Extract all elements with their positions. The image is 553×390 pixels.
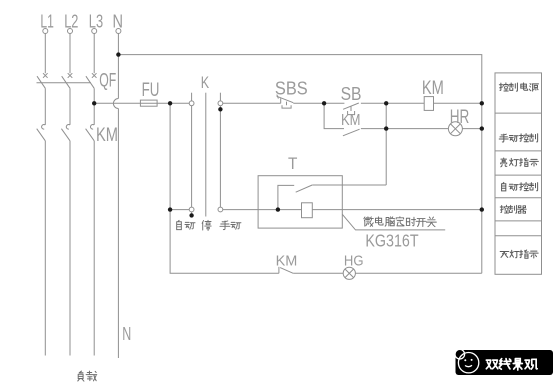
svg-text:KM: KM	[341, 112, 361, 129]
svg-text:HG: HG	[344, 253, 364, 270]
svg-text:SBS: SBS	[275, 78, 308, 99]
svg-text:N: N	[122, 324, 131, 344]
svg-text:KM: KM	[96, 125, 118, 146]
svg-text:KM: KM	[276, 253, 298, 270]
svg-text:KM: KM	[422, 78, 444, 99]
svg-text:N: N	[113, 12, 124, 32]
svg-text:L2: L2	[64, 12, 78, 32]
svg-text:SB: SB	[341, 83, 362, 104]
svg-text:K: K	[201, 74, 209, 92]
svg-text:T: T	[288, 155, 297, 173]
svg-text:KG316T: KG316T	[365, 231, 418, 251]
svg-text:L1: L1	[40, 12, 54, 32]
svg-text:L3: L3	[89, 12, 103, 32]
svg-text:FU: FU	[142, 80, 160, 101]
svg-text:QF: QF	[99, 70, 116, 92]
svg-text:HR: HR	[450, 107, 470, 128]
